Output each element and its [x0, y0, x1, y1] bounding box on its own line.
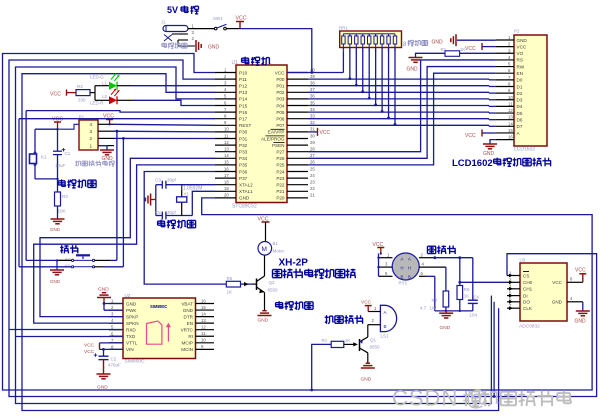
- svg-text:MCIN: MCIN: [181, 347, 193, 352]
- svg-text:CLK: CLK: [523, 306, 533, 311]
- svg-text:24: 24: [310, 173, 315, 178]
- svg-text:XH-2P: XH-2P: [279, 258, 309, 269]
- svg-text:31: 31: [310, 127, 315, 132]
- svg-text:GND: GND: [183, 308, 194, 313]
- svg-text:16: 16: [201, 298, 206, 303]
- svg-text:U2: U2: [125, 293, 131, 298]
- svg-text:P22: P22: [276, 183, 285, 188]
- svg-text:GND: GND: [208, 45, 220, 51]
- svg-text:VRTC: VRTC: [181, 328, 194, 333]
- svg-text:VCC: VCC: [552, 280, 562, 285]
- svg-text:470uF: 470uF: [108, 363, 121, 368]
- svg-text:SPKN: SPKN: [126, 321, 139, 326]
- svg-text:P34: P34: [239, 156, 248, 161]
- svg-text:8550: 8550: [370, 345, 381, 350]
- svg-text:39: 39: [310, 74, 315, 79]
- svg-text:LED-R: LED-R: [90, 101, 104, 106]
- svg-text:10: 10: [201, 338, 206, 343]
- svg-text:P07: P07: [276, 123, 285, 128]
- svg-text:D7: D7: [517, 124, 523, 129]
- svg-text:A: A: [401, 256, 404, 261]
- svg-text:MCIP: MCIP: [182, 341, 193, 346]
- svg-text:11: 11: [508, 101, 513, 106]
- svg-text:34: 34: [310, 107, 315, 112]
- svg-text:16: 16: [224, 166, 229, 171]
- svg-text:11.0592M: 11.0592M: [181, 185, 203, 191]
- svg-text:R3: R3: [62, 194, 68, 199]
- svg-text:30pf: 30pf: [167, 178, 177, 183]
- svg-text:EN: EN: [517, 71, 523, 76]
- svg-text:30pf: 30pf: [167, 210, 177, 215]
- svg-text:P30: P30: [239, 130, 248, 135]
- svg-text:R5: R5: [227, 276, 233, 281]
- svg-text:Motor: Motor: [273, 249, 285, 254]
- svg-text:11: 11: [201, 331, 206, 336]
- svg-text:VIN: VIN: [126, 347, 134, 352]
- svg-text:GND: GND: [361, 377, 372, 383]
- svg-text:P02: P02: [276, 90, 285, 95]
- svg-text:1K: 1K: [345, 338, 350, 343]
- svg-text:RY1: RY1: [399, 281, 408, 286]
- svg-text:LS1: LS1: [381, 334, 390, 339]
- svg-text:14: 14: [201, 311, 206, 316]
- svg-text:ALE/PROG: ALE/PROG: [261, 136, 285, 141]
- svg-text:RXD: RXD: [126, 328, 136, 333]
- svg-text:14: 14: [508, 121, 513, 126]
- svg-text:R4: R4: [322, 338, 328, 343]
- svg-text:P10: P10: [239, 70, 248, 75]
- svg-text:C3: C3: [155, 178, 161, 183]
- svg-text:1K: 1K: [227, 290, 233, 295]
- svg-text:C4: C4: [474, 295, 480, 300]
- svg-text:330: 330: [78, 98, 86, 103]
- svg-text:D5: D5: [517, 111, 523, 116]
- svg-text:P01: P01: [276, 84, 285, 89]
- svg-text:23: 23: [310, 180, 315, 185]
- svg-text:D6: D6: [517, 117, 523, 122]
- svg-text:4.7: 4.7: [420, 306, 427, 311]
- svg-text:ADC0832: ADC0832: [519, 324, 540, 330]
- svg-text:SIM800C: SIM800C: [125, 359, 146, 365]
- svg-text:18: 18: [224, 180, 229, 185]
- svg-text:D1: D1: [517, 84, 523, 89]
- svg-text:B: B: [384, 324, 387, 329]
- svg-text:RR1: RR1: [339, 26, 348, 31]
- svg-text:Q2: Q2: [269, 280, 276, 285]
- svg-text:STC89C52: STC89C52: [232, 204, 257, 210]
- svg-text:C2: C2: [111, 357, 117, 362]
- svg-text:P33: P33: [239, 150, 248, 155]
- svg-text:C5: C5: [155, 210, 161, 215]
- svg-text:P15: P15: [239, 103, 248, 108]
- svg-text:XTAL1: XTAL1: [239, 189, 253, 194]
- svg-text:VCC: VCC: [465, 133, 476, 139]
- svg-text:SIM800C: SIM800C: [150, 304, 167, 309]
- svg-text:H: H: [401, 265, 404, 270]
- svg-text:DTR: DTR: [184, 314, 194, 319]
- svg-text:14: 14: [224, 153, 229, 158]
- svg-text:P13: P13: [239, 90, 248, 95]
- svg-text:D0: D0: [517, 78, 523, 83]
- svg-text:B: B: [408, 274, 411, 279]
- svg-text:D4: D4: [517, 104, 523, 109]
- svg-text:L2: L2: [102, 94, 108, 99]
- svg-text:RS: RS: [517, 58, 523, 63]
- svg-text:CH1: CH1: [523, 287, 533, 292]
- svg-text:REST: REST: [239, 123, 251, 128]
- svg-text:11: 11: [224, 133, 229, 138]
- svg-text:32: 32: [310, 120, 315, 125]
- svg-text:P17: P17: [239, 117, 248, 122]
- svg-text:10: 10: [508, 95, 513, 100]
- svg-text:DI: DI: [523, 293, 528, 298]
- svg-text:M: M: [262, 246, 267, 253]
- svg-text:P16: P16: [239, 110, 248, 115]
- svg-text:H: H: [408, 265, 411, 270]
- svg-text:VO: VO: [517, 51, 524, 56]
- svg-text:VCC: VCC: [320, 130, 331, 136]
- svg-text:P00: P00: [276, 77, 285, 82]
- svg-text:GND: GND: [552, 300, 563, 305]
- svg-text:P21: P21: [276, 189, 285, 194]
- svg-text:PWK: PWK: [126, 308, 137, 313]
- svg-text:D3: D3: [517, 98, 523, 103]
- svg-text:GND: GND: [50, 227, 61, 232]
- svg-text:SW1: SW1: [213, 16, 223, 21]
- svg-text:D2: D2: [517, 91, 523, 96]
- svg-text:19: 19: [224, 186, 229, 191]
- svg-text:A: A: [408, 256, 411, 261]
- svg-text:20: 20: [224, 193, 229, 198]
- svg-text:CS: CS: [523, 273, 529, 278]
- svg-text:33: 33: [310, 114, 315, 119]
- svg-text:22: 22: [310, 186, 315, 191]
- svg-text:VCC: VCC: [465, 46, 476, 52]
- svg-text:13: 13: [201, 318, 206, 323]
- svg-text:VTTL: VTTL: [126, 341, 138, 346]
- svg-text:B: B: [401, 274, 404, 279]
- svg-text:P03: P03: [276, 97, 285, 102]
- svg-text:P20: P20: [276, 196, 285, 201]
- svg-text:27: 27: [310, 153, 315, 158]
- svg-text:Q1: Q1: [370, 338, 377, 343]
- svg-text:P04: P04: [276, 103, 285, 108]
- svg-text:VCC: VCC: [236, 16, 247, 22]
- svg-text:29: 29: [310, 140, 315, 145]
- svg-text:P27: P27: [276, 150, 285, 155]
- svg-text:LCD1602: LCD1602: [514, 147, 535, 153]
- svg-text:12: 12: [508, 108, 513, 113]
- svg-text:15: 15: [201, 305, 206, 310]
- svg-text:SPKP: SPKP: [126, 314, 138, 319]
- svg-text:CH0: CH0: [523, 280, 533, 285]
- svg-text:104: 104: [470, 313, 478, 318]
- svg-text:38: 38: [310, 81, 315, 86]
- svg-text:P31: P31: [239, 136, 248, 141]
- svg-text:GND: GND: [50, 279, 61, 284]
- svg-text:XTAL2: XTAL2: [239, 183, 253, 188]
- svg-text:28: 28: [310, 147, 315, 152]
- svg-text:GND: GND: [517, 38, 528, 43]
- svg-text:P14: P14: [239, 97, 248, 102]
- svg-text:P05: P05: [276, 110, 285, 115]
- svg-text:J1: J1: [161, 20, 166, 25]
- svg-text:12: 12: [201, 325, 206, 330]
- svg-text:25: 25: [310, 166, 315, 171]
- svg-text:37: 37: [310, 87, 315, 92]
- svg-text:12: 12: [224, 140, 229, 145]
- svg-text:1K: 1K: [464, 294, 470, 299]
- svg-text:VCC: VCC: [575, 267, 586, 273]
- svg-text:R2: R2: [77, 84, 83, 89]
- svg-text:1K: 1K: [460, 47, 466, 52]
- svg-text:1: 1: [342, 49, 344, 53]
- svg-text:13: 13: [508, 115, 513, 120]
- svg-text:R6: R6: [464, 287, 470, 292]
- svg-text:VCC: VCC: [517, 44, 527, 49]
- svg-text:P35: P35: [239, 163, 248, 168]
- svg-text:P23: P23: [276, 176, 285, 181]
- svg-text:8550: 8550: [268, 288, 279, 293]
- svg-text:Y1: Y1: [184, 191, 190, 196]
- svg-text:P24: P24: [276, 169, 285, 174]
- svg-text:1: 1: [90, 143, 93, 148]
- svg-text:P32: P32: [239, 143, 248, 148]
- svg-text:VCC: VCC: [84, 349, 95, 355]
- svg-text:P11: P11: [239, 77, 247, 82]
- svg-text:LCD1602: LCD1602: [452, 158, 493, 169]
- svg-text:K1: K1: [41, 155, 47, 160]
- svg-text:16: 16: [508, 135, 513, 140]
- svg-text:15: 15: [508, 128, 513, 133]
- svg-text:GND: GND: [440, 325, 451, 331]
- svg-text:P25: P25: [276, 163, 285, 168]
- svg-text:3: 3: [90, 129, 93, 134]
- svg-text:P36: P36: [239, 169, 248, 174]
- svg-text:10K: 10K: [58, 209, 66, 214]
- svg-text:U3: U3: [520, 258, 526, 263]
- svg-text:U1: U1: [232, 60, 239, 66]
- svg-text:21: 21: [310, 193, 315, 198]
- svg-text:2: 2: [90, 136, 93, 141]
- svg-text:DO: DO: [523, 300, 530, 305]
- svg-text:P12: P12: [239, 84, 248, 89]
- svg-text:GND: GND: [575, 319, 587, 325]
- svg-text:EN: EN: [187, 321, 193, 326]
- svg-text:10uF: 10uF: [55, 163, 66, 168]
- svg-text:VCC: VCC: [84, 342, 95, 348]
- svg-text:VCC: VCC: [275, 70, 285, 75]
- svg-text:15: 15: [224, 160, 229, 165]
- svg-text:GND: GND: [432, 40, 444, 46]
- svg-text:EA/VPP: EA/VPP: [268, 130, 285, 135]
- svg-text:4: 4: [90, 122, 93, 127]
- svg-text:GND: GND: [126, 301, 137, 306]
- svg-text:RI: RI: [188, 334, 193, 339]
- svg-text:PSEN: PSEN: [272, 143, 285, 148]
- svg-text:26: 26: [310, 160, 315, 165]
- svg-text:GND: GND: [483, 151, 495, 157]
- svg-text:VCC: VCC: [50, 92, 61, 98]
- svg-text:GND: GND: [98, 286, 109, 292]
- svg-text:GND: GND: [239, 196, 250, 201]
- svg-text:P06: P06: [276, 117, 285, 122]
- svg-text:C1: C1: [65, 151, 71, 156]
- svg-text:35: 35: [310, 100, 315, 105]
- svg-text:L1: L1: [102, 81, 108, 86]
- svg-text:P2: P2: [514, 29, 520, 34]
- svg-text:5V: 5V: [167, 5, 178, 15]
- svg-text:GND: GND: [407, 67, 419, 73]
- svg-text:LED-G: LED-G: [90, 75, 104, 80]
- svg-text:P37: P37: [239, 176, 248, 181]
- svg-text:36: 36: [310, 94, 315, 99]
- svg-text:TXD: TXD: [126, 334, 136, 339]
- svg-text:GND: GND: [258, 318, 269, 324]
- svg-text:10: 10: [224, 127, 229, 132]
- svg-text:GND: GND: [97, 385, 108, 391]
- svg-text:P26: P26: [276, 156, 285, 161]
- svg-text:30: 30: [310, 133, 315, 138]
- svg-text:B1: B1: [273, 241, 279, 246]
- svg-text:R7: R7: [432, 298, 438, 303]
- svg-text:1W: 1W: [430, 306, 438, 311]
- svg-text:VBAT: VBAT: [181, 301, 193, 306]
- svg-text:17: 17: [224, 173, 229, 178]
- svg-text:13: 13: [224, 147, 229, 152]
- svg-text:VCC: VCC: [361, 300, 372, 306]
- svg-text:RW: RW: [517, 64, 525, 69]
